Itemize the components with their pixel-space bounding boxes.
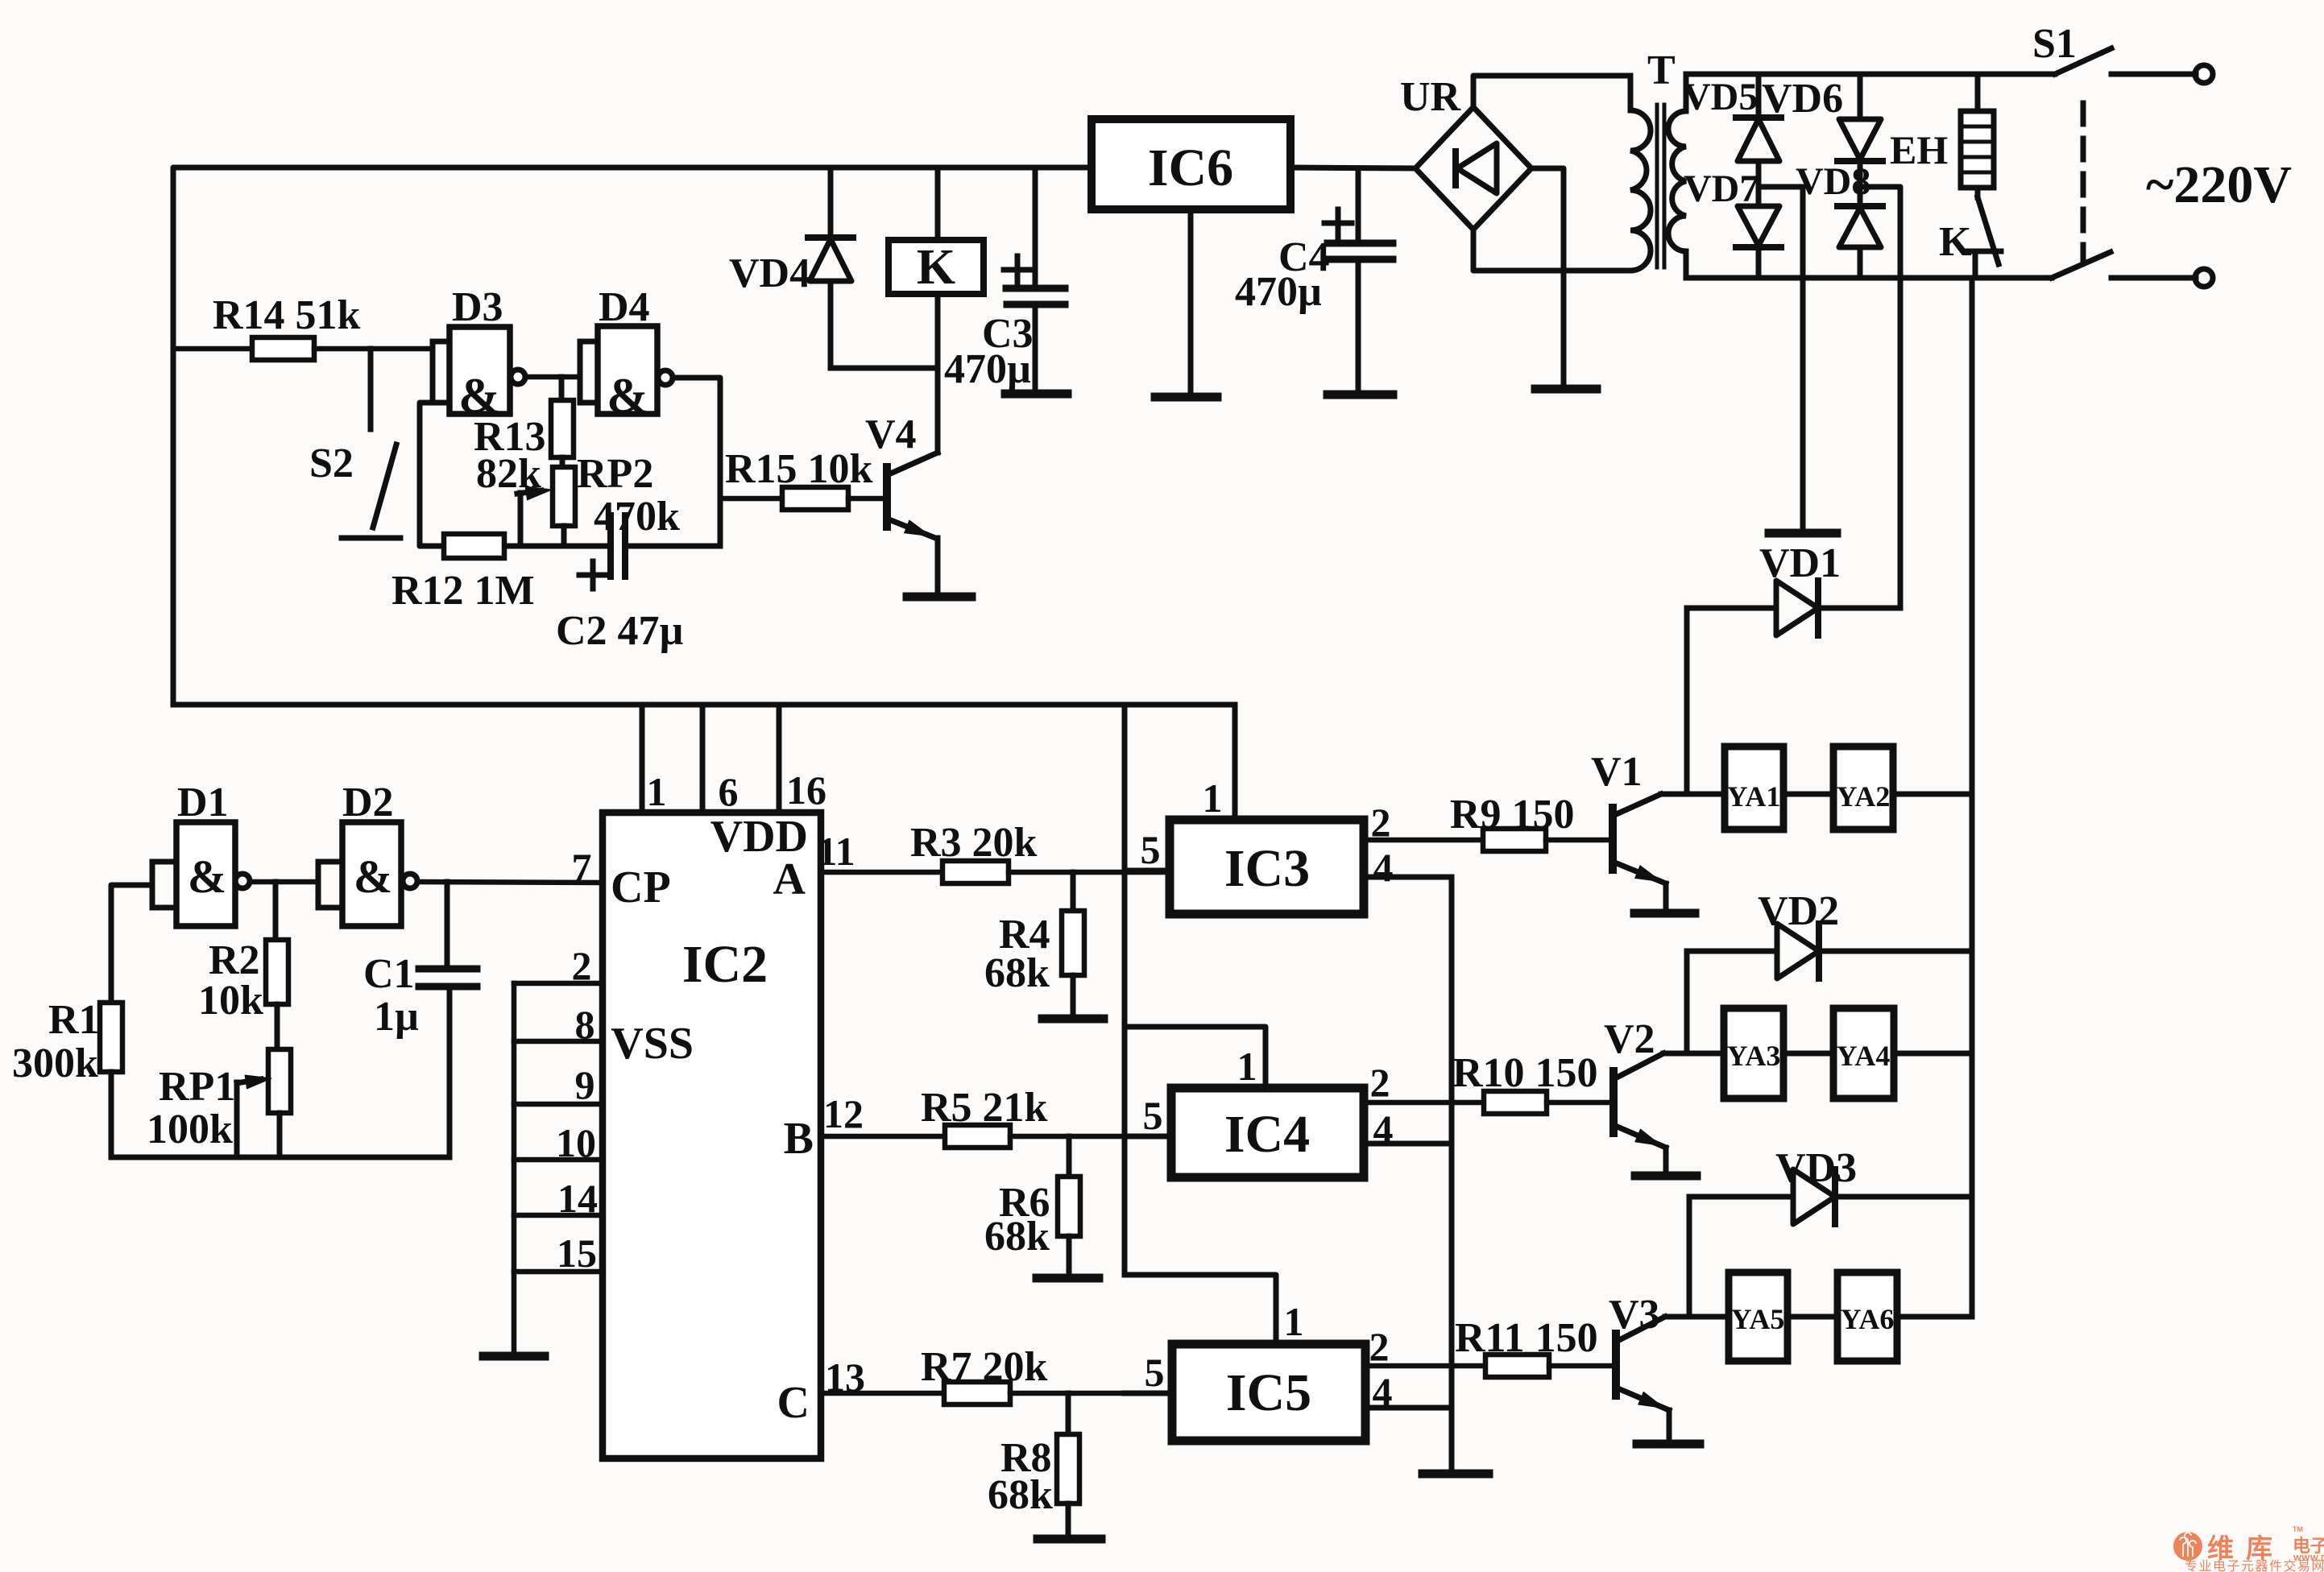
svg-text:YA5: YA5	[1731, 1303, 1785, 1335]
svg-text:11: 11	[817, 829, 855, 874]
svg-text:专业电子元器件交易网站: 专业电子元器件交易网站	[2185, 1559, 2324, 1572]
svg-text:2: 2	[572, 943, 592, 988]
svg-text:R11 150: R11 150	[1455, 1315, 1598, 1361]
svg-text:470µ: 470µ	[1235, 269, 1322, 315]
svg-text:YA6: YA6	[1841, 1303, 1895, 1335]
svg-text:68k: 68k	[984, 950, 1050, 996]
svg-text:68k: 68k	[984, 1214, 1050, 1260]
svg-text:C: C	[777, 1378, 810, 1428]
svg-text:V2: V2	[1604, 1016, 1655, 1062]
svg-text:VD4: VD4	[729, 250, 810, 296]
svg-text:A: A	[773, 854, 806, 904]
svg-text:14: 14	[557, 1176, 598, 1221]
svg-text:470µ: 470µ	[944, 346, 1031, 392]
svg-text:1: 1	[1284, 1299, 1304, 1344]
svg-text:6: 6	[719, 769, 739, 814]
svg-text:68k: 68k	[988, 1472, 1053, 1518]
svg-text:K: K	[1939, 219, 1972, 265]
svg-text:2: 2	[1371, 800, 1391, 845]
svg-text:VD1: VD1	[1759, 540, 1841, 586]
svg-text:1: 1	[647, 769, 667, 814]
svg-text:5: 5	[1145, 1350, 1165, 1395]
svg-text:V4: V4	[865, 412, 917, 457]
svg-text:2: 2	[1370, 1060, 1390, 1105]
svg-text:R12 1M: R12 1M	[391, 568, 535, 614]
svg-text:1: 1	[1237, 1044, 1257, 1089]
svg-text:VD5: VD5	[1683, 76, 1758, 118]
svg-text:IC6: IC6	[1148, 139, 1233, 197]
svg-text:VD7: VD7	[1684, 168, 1759, 210]
svg-text:EH: EH	[1890, 127, 1948, 172]
svg-text:470k: 470k	[594, 494, 680, 540]
svg-text:T: T	[1647, 48, 1676, 93]
svg-text:C2 47µ: C2 47µ	[556, 608, 684, 654]
svg-text:R5 21k: R5 21k	[921, 1085, 1048, 1131]
svg-text:~220V: ~220V	[2146, 155, 2292, 214]
svg-text:B: B	[784, 1114, 814, 1164]
svg-text:维库: 维库	[2207, 1533, 2285, 1563]
svg-text:D1: D1	[177, 780, 229, 825]
svg-text:16: 16	[786, 767, 826, 813]
svg-text:YA2: YA2	[1837, 780, 1891, 813]
svg-text:12: 12	[823, 1091, 864, 1136]
svg-text:R15 10k: R15 10k	[725, 446, 873, 492]
svg-text:D2: D2	[342, 780, 394, 825]
svg-text:R9 150: R9 150	[1450, 792, 1575, 838]
svg-text:D3: D3	[452, 284, 503, 330]
svg-text:YA3: YA3	[1727, 1040, 1781, 1072]
svg-text:TM: TM	[2293, 1525, 2303, 1533]
svg-text:8: 8	[575, 1002, 595, 1047]
svg-text:V1: V1	[1591, 749, 1643, 795]
svg-text:R2: R2	[209, 937, 260, 983]
svg-text:&: &	[188, 850, 226, 903]
svg-text:R1: R1	[48, 997, 100, 1043]
svg-text:2: 2	[1369, 1324, 1390, 1369]
svg-text:R7 20k: R7 20k	[921, 1344, 1048, 1390]
svg-text:R14 51k: R14 51k	[213, 292, 361, 338]
svg-text:YA4: YA4	[1837, 1040, 1891, 1072]
svg-text:R10 150: R10 150	[1452, 1050, 1598, 1096]
svg-text:VD2: VD2	[1758, 888, 1839, 934]
svg-text:&: &	[607, 369, 648, 424]
svg-text:10: 10	[556, 1120, 596, 1165]
svg-text:C1: C1	[363, 951, 415, 997]
svg-text:5: 5	[1143, 1093, 1163, 1138]
svg-text:RP1: RP1	[159, 1064, 235, 1110]
svg-text:UR: UR	[1400, 74, 1462, 120]
svg-text:VD6: VD6	[1762, 76, 1843, 122]
svg-text:VD3: VD3	[1775, 1145, 1857, 1191]
svg-text:&: &	[354, 850, 392, 903]
svg-text:10k: 10k	[198, 978, 263, 1024]
svg-text:CP: CP	[611, 863, 671, 912]
svg-text:VD8: VD8	[1796, 160, 1870, 203]
svg-text:RP2: RP2	[577, 451, 653, 497]
svg-text:IC3: IC3	[1224, 839, 1310, 898]
svg-text:15: 15	[557, 1231, 597, 1276]
svg-text:IC4: IC4	[1224, 1105, 1310, 1164]
svg-text:V3: V3	[1609, 1292, 1660, 1338]
svg-text:4: 4	[1373, 845, 1394, 890]
svg-text:S2: S2	[309, 441, 354, 486]
svg-text:R3 20k: R3 20k	[910, 820, 1038, 866]
svg-text:300k: 300k	[12, 1040, 98, 1086]
svg-text:YA1: YA1	[1727, 780, 1781, 813]
svg-text:9: 9	[575, 1062, 595, 1107]
svg-text:5: 5	[1141, 827, 1161, 872]
svg-text:1µ: 1µ	[374, 994, 419, 1040]
svg-text:IC2: IC2	[682, 935, 768, 994]
svg-text:1: 1	[1203, 776, 1223, 821]
svg-text:K: K	[917, 240, 955, 295]
svg-text:100k: 100k	[147, 1107, 233, 1152]
svg-text:S1: S1	[2032, 21, 2077, 67]
svg-text:IC5: IC5	[1226, 1363, 1311, 1422]
svg-text:D4: D4	[599, 284, 650, 330]
svg-text:VSS: VSS	[611, 1019, 694, 1069]
